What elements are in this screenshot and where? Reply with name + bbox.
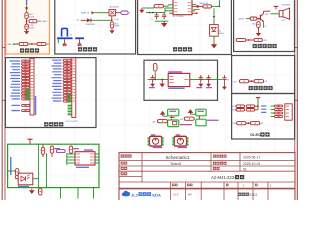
wire bbox=[257, 100, 259, 110]
capacitor C7 bbox=[155, 14, 159, 16]
switch SW1 base bar 1 bbox=[57, 37, 73, 39]
svg-text:C7: C7 bbox=[151, 19, 153, 21]
capacitor C4 bbox=[151, 77, 155, 79]
svg-text:OLED: OLED bbox=[250, 132, 261, 137]
svg-text:100K: 100K bbox=[115, 26, 120, 28]
svg-text:#1: #1 bbox=[243, 167, 247, 171]
wire exit right bbox=[213, 78, 222, 80]
button K1 pad top bbox=[168, 109, 179, 116]
wire bbox=[81, 19, 87, 21]
ground bbox=[163, 21, 165, 23]
ground under C4 bbox=[152, 82, 154, 84]
sheet frame left outer line bbox=[1, 0, 3, 200]
section box: voltage measurement (orange) bbox=[6, 0, 50, 54]
ground bbox=[213, 43, 215, 45]
vibration motor M1 bbox=[149, 136, 161, 146]
svg-text:TP4056: TP4056 bbox=[176, 16, 184, 18]
section label: charging circuit bbox=[173, 47, 177, 51]
charger IC U4 TP4056 bbox=[173, 0, 192, 15]
net label VBAT vertical bbox=[26, 0, 27, 5]
U5 top label bbox=[84, 149, 93, 150]
net flag 3V3 bbox=[256, 97, 260, 99]
title block texts row1 bbox=[121, 154, 124, 157]
wire bbox=[26, 19, 28, 24]
U4 pin wires left bbox=[168, 4, 173, 6]
resistor R10 horizontal bbox=[184, 117, 194, 120]
ground U3 gnd pin bbox=[161, 79, 163, 82]
svg-text:VBAT_IN: VBAT_IN bbox=[81, 12, 90, 15]
resistor R20 horizontal bbox=[19, 42, 28, 45]
section box: 5V regulator bbox=[144, 60, 218, 100]
resistor R6b horizontal bbox=[246, 109, 255, 112]
U5 label bbox=[76, 167, 89, 168]
ground under C5 bbox=[200, 82, 202, 84]
ground left bbox=[142, 7, 154, 9]
wire vertical from flag bbox=[38, 144, 40, 187]
U5 pin wires bbox=[66, 153, 68, 165]
pin stub 2 bbox=[79, 39, 81, 43]
switch SW1 base bar 2 bbox=[75, 37, 84, 39]
net flag arrow K1 bbox=[160, 111, 165, 115]
frame zone tick right y=100 bbox=[294, 99, 298, 101]
resistor R5b horizontal bbox=[246, 105, 255, 108]
svg-text:BUZZER: BUZZER bbox=[282, 4, 291, 6]
wire row2 bbox=[146, 12, 165, 14]
svg-text:BAT_ADC: BAT_ADC bbox=[38, 20, 48, 23]
wire bbox=[213, 36, 215, 42]
header J2 pin names bbox=[73, 59, 75, 62]
sheet frame right outer line bbox=[296, 0, 298, 200]
diode D1 bbox=[87, 18, 91, 22]
wire bbox=[13, 43, 19, 45]
U6 label bbox=[18, 186, 29, 187]
svg-text:E304: E304 bbox=[250, 193, 258, 197]
header J1 extra pin 5V bbox=[22, 110, 30, 112]
wire into U6 bbox=[15, 175, 17, 178]
svg-text:AO3401A: AO3401A bbox=[110, 6, 120, 9]
net flag down bbox=[26, 5, 28, 7]
resistor lower chain 1 bbox=[237, 122, 246, 125]
regulator U3 AMS1117 bbox=[168, 71, 182, 73]
net flag arrow right bbox=[91, 11, 94, 14]
svg-text:C9: C9 bbox=[227, 79, 229, 81]
section label: voltage measurement bbox=[20, 48, 24, 52]
net flag VCC speaker bbox=[274, 5, 279, 7]
title block texts row4 bbox=[121, 172, 124, 175]
title block lines bbox=[119, 153, 295, 201]
resistor R16 bbox=[110, 22, 113, 28]
net labels mid bbox=[261, 105, 266, 106]
pin stub 1 bbox=[64, 39, 66, 43]
svg-text:Board1: Board1 bbox=[171, 162, 182, 166]
svg-text:B_IN: B_IN bbox=[114, 19, 119, 21]
header J1 pins bbox=[22, 60, 30, 62]
pin green bbox=[57, 39, 59, 43]
svg-text:LS1: LS1 bbox=[281, 20, 284, 22]
U3 label below bbox=[168, 88, 184, 89]
inductor L2 purple oval bbox=[56, 150, 65, 153]
button K2 pad top bbox=[196, 109, 206, 116]
resistor R7 horizontal bbox=[239, 80, 248, 83]
wire bbox=[91, 19, 111, 21]
svg-text:2025-10-01: 2025-10-01 bbox=[243, 162, 260, 166]
section box: OLED circuit bbox=[232, 94, 295, 140]
title block texts row3 bbox=[121, 167, 124, 170]
header J2 body bbox=[72, 58, 76, 118]
resistor R21 horizontal bbox=[37, 42, 46, 45]
transistor Q1 bbox=[259, 15, 261, 21]
capacitor C5 bbox=[199, 77, 203, 79]
wire bbox=[190, 113, 195, 115]
wire emitter bbox=[263, 21, 265, 27]
wire to speaker bbox=[270, 13, 279, 15]
svg-text:R12: R12 bbox=[252, 23, 255, 25]
net port flag bottom bbox=[236, 38, 246, 41]
resistor R17 bbox=[25, 13, 28, 19]
svg-text:JLC: JLC bbox=[131, 192, 139, 197]
wire collector bbox=[263, 11, 265, 13]
resistor R1 hanging bbox=[42, 144, 44, 147]
frame zone tick right y=47 bbox=[294, 47, 298, 49]
frame zone tick left y=47 bbox=[2, 47, 6, 49]
ground bbox=[111, 29, 113, 31]
svg-text:A2-M41-223-: A2-M41-223- bbox=[211, 175, 236, 180]
title block small header row bbox=[172, 184, 175, 187]
resistor R3 hanging bbox=[69, 146, 72, 153]
wire bbox=[26, 10, 28, 12]
section box: charging circuit bbox=[138, 0, 232, 55]
resistor R5 horizontal bbox=[236, 105, 245, 108]
inner vertical wire bbox=[45, 153, 47, 187]
section label: power switch bbox=[78, 47, 82, 51]
header J2 green pads bbox=[68, 94, 72, 96]
inductor L1 (purple) bbox=[121, 11, 128, 14]
wire cap bottoms bbox=[155, 20, 169, 22]
optocoupler U6 bbox=[18, 173, 33, 185]
speaker LS1 bbox=[279, 11, 283, 17]
ground under C6 bbox=[208, 82, 210, 84]
header J1 pin names bbox=[31, 60, 33, 63]
button K1 pad bottom bbox=[168, 120, 179, 127]
section box: power switch bbox=[55, 0, 136, 54]
svg-text:D1: D1 bbox=[77, 20, 79, 22]
bottom rail ground bbox=[31, 189, 33, 191]
sheet background bbox=[0, 0, 300, 200]
svg-text:B5819WS: B5819WS bbox=[86, 24, 95, 26]
section box: alarm circuit bbox=[234, 0, 295, 52]
capacitor C8 bbox=[162, 14, 166, 16]
vibration motor M2 bbox=[174, 136, 186, 146]
node junction bbox=[26, 20, 28, 22]
left vertical blue label bbox=[10, 157, 12, 175]
red label BAT+ bbox=[193, 9, 199, 10]
resistor lower chain 2 bbox=[250, 122, 259, 125]
section box: header pins bbox=[5, 58, 96, 128]
svg-text:100K: 100K bbox=[29, 28, 34, 30]
svg-text:Schematic1: Schematic1 bbox=[165, 155, 189, 160]
wire bbox=[111, 16, 113, 20]
svg-text:100K: 100K bbox=[29, 16, 34, 18]
U4 right pin stubs bbox=[192, 4, 196, 6]
button K1 label bbox=[180, 124, 192, 125]
node junction bbox=[251, 80, 253, 82]
ground bbox=[26, 29, 28, 31]
capacitor C9 outside bbox=[222, 77, 226, 79]
header J1 vertical label bbox=[35, 96, 37, 115]
button K2 switch bbox=[198, 116, 200, 119]
wire bbox=[95, 12, 109, 14]
wire bbox=[163, 115, 168, 117]
title block texts row2 bbox=[121, 162, 124, 165]
svg-text:S1: S1 bbox=[70, 34, 72, 36]
resistor R8 horizontal bbox=[254, 80, 264, 83]
resistor R11 horizontal bbox=[250, 17, 257, 20]
section box: counter circuit bbox=[232, 56, 295, 94]
header J2 pins bbox=[63, 59, 71, 61]
svg-text:2025-06-17: 2025-06-17 bbox=[243, 155, 260, 159]
diode D2 SS34 boxed bbox=[210, 25, 219, 37]
svg-text:EDA: EDA bbox=[152, 192, 161, 197]
svg-text:SS34: SS34 bbox=[219, 33, 224, 35]
frame zone tick left y=100 bbox=[2, 99, 6, 101]
net flag VCC top bbox=[27, 138, 32, 140]
node junction bbox=[31, 43, 33, 45]
svg-text:XH-2.54-15P: XH-2.54-15P bbox=[66, 121, 78, 123]
wire U6 right bbox=[33, 178, 39, 180]
logo JLC EDA bbox=[122, 191, 130, 196]
svg-text:A4: A4 bbox=[188, 192, 192, 196]
header J2 green pads extra bbox=[68, 105, 72, 107]
node bbox=[248, 122, 250, 124]
button K1 switch bbox=[170, 116, 172, 117]
wire bbox=[246, 18, 250, 20]
sheet frame left inner line bbox=[4, 0, 6, 200]
resistor R6 horizontal bbox=[236, 109, 245, 112]
resistor R13 horizontal bbox=[254, 38, 262, 41]
net flag 5V oval bbox=[153, 63, 157, 71]
wire bbox=[246, 39, 254, 41]
button K2 pad bottom bbox=[196, 119, 206, 126]
resistor R15 horizontal bbox=[203, 5, 212, 8]
resistor R14 horizontal bbox=[154, 5, 164, 8]
bottom wire stubs bbox=[59, 188, 61, 199]
OLED connector J3 pins bbox=[274, 105, 282, 107]
svg-text:SCL: SCL bbox=[232, 106, 236, 108]
resistor R12 vertical bbox=[257, 22, 260, 28]
wire bbox=[116, 12, 121, 14]
wire main rail bbox=[148, 78, 214, 80]
resistor R4 vertical bbox=[16, 169, 19, 176]
node junction bbox=[258, 18, 260, 20]
header J1 extra pin 3V3 bbox=[22, 104, 30, 106]
ground bbox=[257, 31, 259, 33]
header J1 green pads bbox=[26, 89, 30, 91]
resistor bottom R22 bbox=[39, 188, 42, 195]
section label: header pins bbox=[44, 122, 48, 126]
section label: counter circuit bbox=[249, 86, 253, 90]
resistor R19 horizontal bbox=[29, 20, 37, 23]
header J1 body bbox=[30, 58, 34, 115]
button K2 label bbox=[207, 120, 219, 121]
svg-text:BEEP: BEEP bbox=[239, 18, 245, 20]
resistor R9 horizontal bbox=[157, 120, 167, 123]
wire to diode bbox=[213, 8, 215, 24]
resistor R2 hanging bbox=[50, 146, 53, 153]
switch SW1 lever (blue) bbox=[62, 28, 68, 36]
controller U5 bbox=[75, 152, 95, 165]
resistor R18 bbox=[25, 24, 28, 29]
capacitor C6 bbox=[207, 77, 211, 79]
sheet frame right inner line bbox=[294, 0, 296, 200]
section box: main controller (green) bbox=[8, 144, 99, 187]
wire bbox=[212, 5, 220, 7]
svg-text:V1.0: V1.0 bbox=[173, 192, 179, 196]
section label: alarm circuit bbox=[253, 44, 257, 48]
OLED connector J3 body bbox=[285, 104, 292, 120]
wire left bbox=[8, 170, 16, 172]
wire bbox=[257, 28, 259, 32]
net flag arrow K2 bbox=[188, 109, 193, 113]
